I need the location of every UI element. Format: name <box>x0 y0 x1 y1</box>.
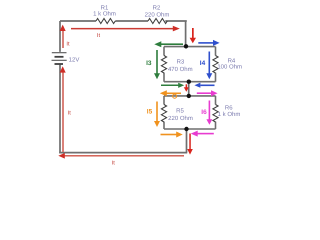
svg-text:1 k Ohm: 1 k Ohm <box>93 11 116 18</box>
node A junction dot <box>184 44 188 48</box>
svg-text:R3: R3 <box>177 59 185 66</box>
svg-text:470 Ohm: 470 Ohm <box>168 66 193 73</box>
box1 outline R3/R4 parallel <box>164 47 216 82</box>
ring on box2 top wire <box>173 94 177 98</box>
node B lower junction dot <box>187 94 191 98</box>
current arrow I5 out of node B (left) <box>160 90 181 96</box>
svg-text:I3: I3 <box>146 60 152 67</box>
battery 12V <box>52 53 67 64</box>
current arrow It below node C <box>187 134 193 155</box>
wire between node B dots <box>188 82 190 96</box>
node B upper junction dot <box>187 80 191 84</box>
current arrow It left lower <box>60 66 66 152</box>
current arrow It into node A <box>190 28 196 43</box>
current arrow I4 out of node A (right) <box>198 40 219 46</box>
svg-text:100 Ohm: 100 Ohm <box>217 63 242 70</box>
svg-text:R6: R6 <box>225 105 233 112</box>
svg-text:R1: R1 <box>101 4 109 11</box>
current arrow I5 down <box>154 102 160 128</box>
svg-text:R5: R5 <box>176 107 184 114</box>
current arrow I6 into node C (left) <box>191 131 214 137</box>
resistor R1 <box>96 19 115 24</box>
wire node C to bottom <box>186 129 188 153</box>
svg-text:220 Ohm: 220 Ohm <box>168 115 193 122</box>
resistor R3 <box>161 56 166 74</box>
svg-text:220 Ohm: 220 Ohm <box>145 11 170 18</box>
resistor R6 <box>213 105 218 123</box>
current arrow I5 into node C (right) <box>161 132 183 138</box>
svg-text:R4: R4 <box>228 57 236 64</box>
wire bottom <box>59 152 187 154</box>
resistor R4 <box>213 56 218 74</box>
svg-text:R2: R2 <box>153 4 161 11</box>
current arrow I3 into node B (right) <box>161 83 184 88</box>
svg-text:I5: I5 <box>147 108 153 115</box>
svg-text:1 k Ohm: 1 k Ohm <box>218 111 241 118</box>
svg-text:It: It <box>68 111 72 117</box>
svg-text:It: It <box>112 160 116 166</box>
current arrow I3 out of node A (left) <box>154 41 183 47</box>
current arrow It left upper <box>60 25 66 48</box>
wire right spine upper <box>185 21 187 46</box>
svg-text:I4: I4 <box>200 60 206 67</box>
current arrow It between node B dots <box>184 84 189 92</box>
current arrow I6 down <box>206 101 212 125</box>
current arrow I4 down <box>206 52 212 80</box>
resistor R5 <box>161 105 166 123</box>
wire top <box>60 20 187 22</box>
box2 outline R5/R6 parallel <box>164 96 216 129</box>
node C junction dot <box>184 127 188 131</box>
current arrow It bottom <box>58 153 184 159</box>
wire left <box>59 21 61 153</box>
svg-text:It: It <box>97 33 101 39</box>
current arrow I6 out of node B (right) <box>197 90 218 96</box>
current arrow It top <box>71 26 180 32</box>
current arrow I3 down <box>154 50 160 79</box>
svg-text:It: It <box>66 41 70 47</box>
svg-text:12V: 12V <box>69 57 80 64</box>
current arrow I4 into node B (left) <box>194 83 214 88</box>
resistor R2 <box>148 19 167 24</box>
svg-text:I6: I6 <box>201 109 207 116</box>
